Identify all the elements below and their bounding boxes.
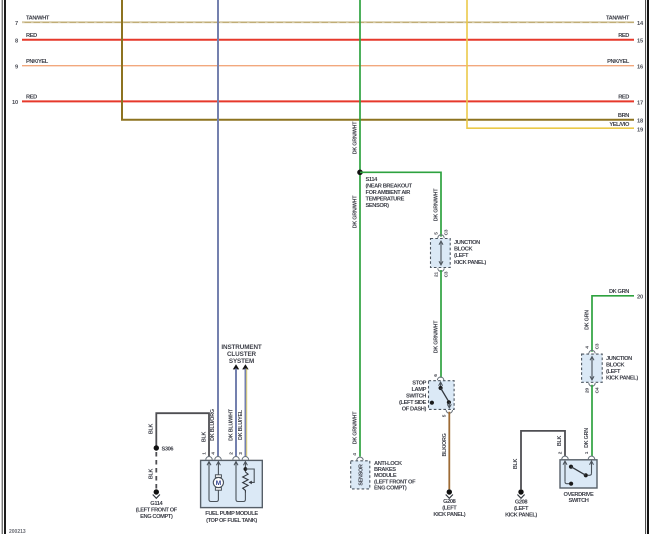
wire DK GRN from right edge 20 down to junction block 2 xyxy=(592,296,634,352)
svg-text:DK GRN: DK GRN xyxy=(585,310,591,330)
svg-text:DK GRN/WHT: DK GRN/WHT xyxy=(353,411,359,444)
svg-text:ENG COMPT): ENG COMPT) xyxy=(140,514,173,520)
svg-text:DK BLU/ORG: DK BLU/ORG xyxy=(210,409,216,441)
label instrument cluster system xyxy=(221,344,262,365)
connector arc top of stop lamp switch xyxy=(437,377,443,380)
junction block U1 (left kick panel) xyxy=(431,239,451,268)
connector arc bottom of junction block xyxy=(438,268,444,271)
ground G114 xyxy=(153,489,160,498)
fuel level sender R1 xyxy=(243,467,255,492)
wire BRN vertical+horizontal to 18 xyxy=(122,0,634,120)
svg-text:STOP: STOP xyxy=(412,381,426,387)
connector arc bottom of junction block 2 xyxy=(589,383,595,386)
svg-text:G208: G208 xyxy=(443,499,456,505)
svg-text:(LEFT: (LEFT xyxy=(454,253,469,259)
svg-text:SWITCH: SWITCH xyxy=(406,394,426,400)
arrow to instrument cluster (DK BLU/WHT) xyxy=(233,364,239,369)
svg-text:BLK: BLK xyxy=(201,431,207,442)
svg-text:SENSOR: SENSOR xyxy=(359,464,365,486)
svg-text:(NEAR BREAKOUT: (NEAR BREAKOUT xyxy=(366,183,413,189)
svg-text:DK BLU/YEL: DK BLU/YEL xyxy=(238,409,244,440)
wire DK GRN/WHT main vertical from top to ABS sensor xyxy=(359,0,361,457)
svg-text:ANTI-LOCK: ANTI-LOCK xyxy=(374,461,403,467)
svg-text:DK GRN: DK GRN xyxy=(609,289,629,295)
svg-text:JUNCTION: JUNCTION xyxy=(606,356,632,362)
connector arc top of junction block xyxy=(438,235,444,238)
svg-text:BLK: BLK xyxy=(513,458,519,469)
wire DK BLU/ORG vertical from top to fuel pump pin 4 xyxy=(217,0,219,456)
label stop lamp switch xyxy=(399,381,427,413)
splice S306 xyxy=(154,445,159,450)
svg-text:10: 10 xyxy=(12,100,18,106)
svg-text:OF DASH): OF DASH) xyxy=(402,407,427,413)
wire DK BLU/YEL xyxy=(245,369,246,457)
anti-lock brakes module sensor box xyxy=(351,461,370,489)
connector arc pin 4 xyxy=(215,457,221,460)
arrow to instrument cluster (DK BLU/YEL) xyxy=(242,364,248,369)
svg-text:TEMPERATURE: TEMPERATURE xyxy=(366,197,405,203)
pin4 internal arrow + wire xyxy=(216,462,220,466)
label S114 breakout xyxy=(366,177,413,209)
svg-text:FUEL PUMP MODULE: FUEL PUMP MODULE xyxy=(205,511,258,517)
svg-text:16: 16 xyxy=(637,65,643,71)
connector arc bottom of stop lamp switch xyxy=(446,410,452,413)
svg-text:7: 7 xyxy=(15,21,18,27)
connector arc overdrive pin 2 xyxy=(562,456,568,459)
label G114 xyxy=(136,501,178,520)
label anti-lock brakes module xyxy=(374,461,416,492)
wire YEL/VIO vertical+horizontal to 19 xyxy=(467,0,634,128)
connector arc pin 1 xyxy=(206,457,212,460)
svg-text:19: 19 xyxy=(637,127,643,133)
svg-text:200213: 200213 xyxy=(9,529,26,534)
svg-text:RED: RED xyxy=(26,33,37,39)
svg-text:BLK: BLK xyxy=(149,468,155,479)
svg-text:JUNCTION: JUNCTION xyxy=(454,240,480,246)
stop lamp switch xyxy=(429,381,455,410)
svg-text:(LEFT FRONT OF: (LEFT FRONT OF xyxy=(136,508,178,514)
svg-text:(LEFT FRONT OF: (LEFT FRONT OF xyxy=(374,479,416,485)
label junction block 2 xyxy=(606,356,638,382)
right page border xyxy=(646,0,648,534)
svg-text:ENG COMPT): ENG COMPT) xyxy=(374,486,407,492)
wire BLK/ORG stop lamp switch to ground xyxy=(448,412,450,490)
svg-text:(LEFT: (LEFT xyxy=(606,369,621,375)
wire DK BLU/WHT xyxy=(235,369,237,457)
svg-text:PNK/YEL: PNK/YEL xyxy=(607,59,630,65)
svg-text:C3: C3 xyxy=(443,271,449,277)
svg-text:DK GRN/WHT: DK GRN/WHT xyxy=(434,188,440,221)
connector arc top of junction block 2 xyxy=(589,350,595,353)
svg-text:KICK PANEL): KICK PANEL) xyxy=(454,260,486,266)
wire 10-17 RED horizontal xyxy=(22,100,634,102)
svg-text:OVERDRIVE: OVERDRIVE xyxy=(564,492,595,498)
svg-text:BLK: BLK xyxy=(149,423,155,434)
svg-text:DK GRN/WHT: DK GRN/WHT xyxy=(434,320,440,353)
svg-text:S114: S114 xyxy=(366,177,379,183)
svg-text:RED: RED xyxy=(26,95,37,101)
wire 9-16 PNK/YEL horizontal xyxy=(22,65,634,67)
svg-text:14: 14 xyxy=(637,21,644,27)
svg-text:17: 17 xyxy=(637,100,643,106)
svg-text:TAN/WHT: TAN/WHT xyxy=(606,16,630,22)
svg-text:(LEFT: (LEFT xyxy=(514,506,529,512)
svg-text:(LEFT: (LEFT xyxy=(442,506,457,512)
svg-text:9: 9 xyxy=(15,64,18,70)
wire DK GRN junction block 2 to overdrive switch pin 1 xyxy=(591,385,593,456)
pin2 internal arrow + wire xyxy=(234,462,238,466)
svg-text:BLK: BLK xyxy=(557,435,563,446)
splice S114 xyxy=(357,170,363,176)
wire 7-14 TAN/WHT horizontal xyxy=(22,21,634,23)
wire BLK dashed to ground xyxy=(155,452,157,489)
label junction block 1 xyxy=(454,240,486,266)
wire 8-15 RED horizontal xyxy=(22,39,634,41)
svg-text:DK GRN: DK GRN xyxy=(584,428,590,448)
svg-text:20: 20 xyxy=(584,388,590,393)
svg-text:MODULE: MODULE xyxy=(374,473,397,479)
wire BLK overdrive pin 2 to ground G208 xyxy=(521,431,565,489)
label G208 xyxy=(505,500,537,519)
svg-text:RED: RED xyxy=(618,33,629,39)
svg-text:KICK PANEL): KICK PANEL) xyxy=(606,376,638,382)
svg-text:C3: C3 xyxy=(594,343,600,349)
svg-text:FOR AMBIENT AIR: FOR AMBIENT AIR xyxy=(366,190,411,196)
svg-text:20: 20 xyxy=(637,295,643,301)
label overdrive switch xyxy=(564,492,595,504)
label G208 xyxy=(433,499,465,518)
pin1 internal arrow + wire xyxy=(207,462,211,466)
svg-text:S306: S306 xyxy=(162,447,174,453)
svg-text:KICK PANEL): KICK PANEL) xyxy=(433,512,465,518)
ABS sensor connector arc xyxy=(357,457,363,460)
wire BLK fuel pump pin1 to splice leg xyxy=(156,413,209,456)
svg-text:BRN: BRN xyxy=(618,113,629,119)
svg-text:SYSTEM: SYSTEM xyxy=(229,358,254,365)
svg-text:TAN/WHT: TAN/WHT xyxy=(26,16,50,22)
ground G208 (overdrive) xyxy=(517,489,524,498)
svg-text:KICK PANEL): KICK PANEL) xyxy=(505,513,537,519)
pin3 internal arrow + wire xyxy=(243,462,247,466)
svg-text:DK BLU/WHT: DK BLU/WHT xyxy=(228,408,234,441)
ground G208 (stop lamp) xyxy=(446,489,453,498)
svg-text:C3: C3 xyxy=(443,229,449,235)
svg-text:G114: G114 xyxy=(150,501,163,507)
wire DK GRN/WHT junction block to stop lamp switch xyxy=(440,270,442,378)
junction block U2 (left kick panel) xyxy=(582,354,603,382)
svg-text:RED: RED xyxy=(618,95,629,101)
connector arc overdrive pin 1 xyxy=(588,456,594,459)
label fuel pump module xyxy=(205,511,258,524)
svg-text:SENSOR): SENSOR) xyxy=(366,203,390,209)
wire branch DK GRN/WHT to junction block xyxy=(360,172,441,236)
svg-text:DK GRN/WHT: DK GRN/WHT xyxy=(353,121,359,154)
svg-text:PNK/YEL: PNK/YEL xyxy=(26,59,49,65)
svg-text:15: 15 xyxy=(637,39,643,45)
svg-text:M: M xyxy=(216,480,221,487)
svg-text:BLK/ORG: BLK/ORG xyxy=(442,433,448,456)
left page border xyxy=(2,0,5,534)
overdrive switch xyxy=(560,460,597,488)
svg-text:21: 21 xyxy=(433,272,439,277)
svg-text:SWITCH: SWITCH xyxy=(568,498,588,504)
connector arc pin 2 xyxy=(233,457,239,460)
svg-text:LAMP: LAMP xyxy=(411,387,426,393)
svg-text:DK GRN/WHT: DK GRN/WHT xyxy=(353,195,359,228)
svg-text:(LEFT SIDE: (LEFT SIDE xyxy=(399,400,427,406)
svg-text:BLOCK: BLOCK xyxy=(454,247,474,253)
svg-text:8: 8 xyxy=(15,39,18,45)
svg-text:BLOCK: BLOCK xyxy=(606,362,626,368)
svg-text:YEL/VIO: YEL/VIO xyxy=(609,122,630,128)
svg-text:18: 18 xyxy=(637,118,643,124)
svg-text:(TOP OF FUEL TANK): (TOP OF FUEL TANK) xyxy=(206,518,257,524)
svg-text:G208: G208 xyxy=(515,500,528,506)
fuel pump module box xyxy=(201,460,263,507)
svg-text:BRAKES: BRAKES xyxy=(374,467,396,473)
motor M1 xyxy=(213,475,223,490)
connector arc pin 3 xyxy=(242,457,248,460)
svg-text:C4: C4 xyxy=(594,387,600,393)
